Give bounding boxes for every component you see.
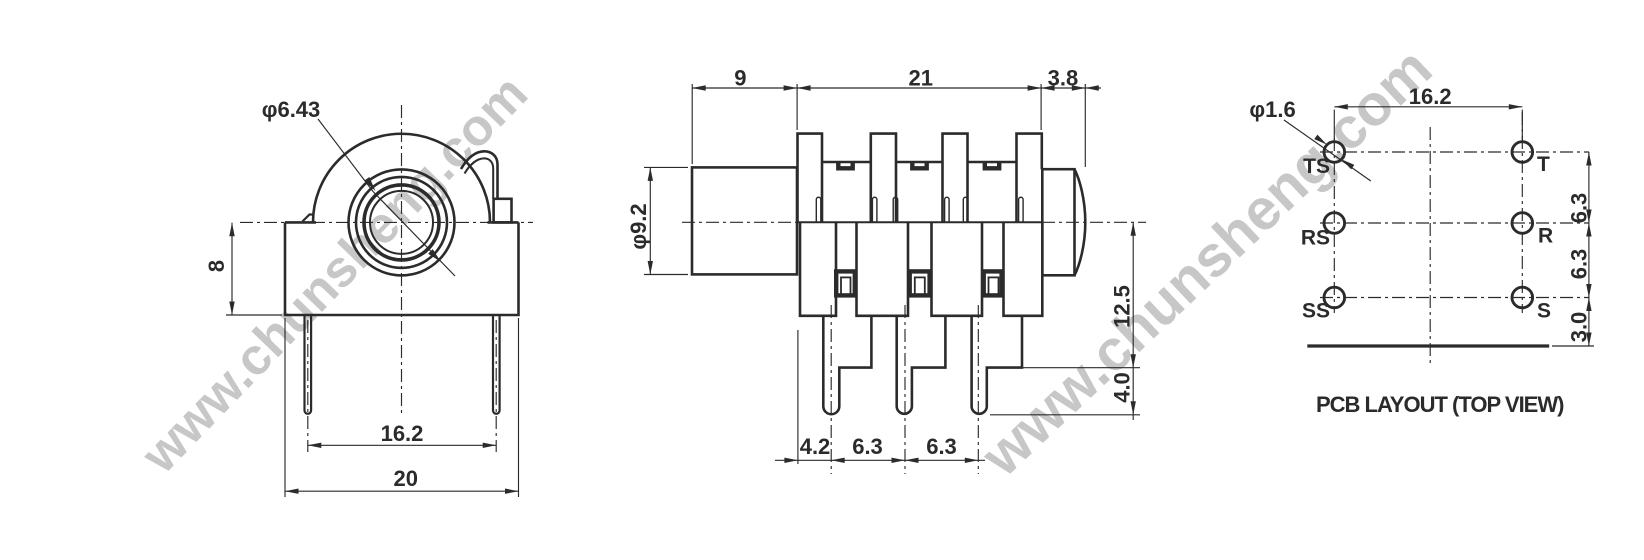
side view: notch in gap 2 [912,162,926,168]
pcb view: extension at board edge [1552,345,1594,347]
side view: lower block 4 [1004,222,1043,315]
front view: phi6.43 leader arrow upper [364,177,375,191]
side view: body mid line at centerline [798,221,1043,223]
svg-text:φ1.6: φ1.6 [1249,97,1295,122]
side view: right dimension line [1132,222,1134,420]
side view: notch in gap 3 [985,162,999,168]
side view: contact tab 4 column [1017,134,1042,223]
side view: pin centerlines [830,305,832,474]
svg-text:φ9.2: φ9.2 [626,203,651,249]
pcb view: vertical view centerline [1429,127,1431,363]
svg-text:20: 20 [393,466,417,491]
front view: hole circle phi6.43 (thick) [364,185,439,260]
side view: top dimension extension lines [691,84,693,164]
pcb view: column centerline left [1333,138,1335,313]
side view: 12.5 / 4.0 extension lines [1022,367,1140,369]
pcb view: 16.2 dimension line [1334,106,1522,108]
front view: phi6.43 leader arrow lower [428,249,441,262]
side view: horizontal centerline [682,221,1146,223]
pcb view: hole SS [1324,287,1345,308]
front view: switch tab square [494,199,512,223]
pcb view: hole S [1512,287,1533,308]
front view: dimension 20 line [285,490,519,492]
svg-text:4.0: 4.0 [1110,372,1135,403]
svg-text:3.8: 3.8 [1048,66,1079,91]
svg-text:16.2: 16.2 [1409,84,1452,109]
front view: spring hook outer curve [461,151,498,199]
side view: gap top edge 2 [896,161,943,164]
front view: dimension 20 extension lines [284,318,286,497]
svg-text:12.5: 12.5 [1110,285,1135,328]
front view: left pin centerline [307,320,309,452]
side view: bottom extension line [797,330,799,464]
front view: jack body rectangle 20x8 [285,222,519,315]
svg-text:SS: SS [1302,300,1330,323]
side view: pin 3 with mounting lug [972,316,1022,414]
side view: web 1 with square hole [836,271,855,295]
svg-text:S: S [1537,300,1551,323]
side view: end cap rectangle [1042,169,1074,275]
svg-text:R: R [1538,225,1553,248]
svg-text:PCB LAYOUT (TOP VIEW): PCB LAYOUT (TOP VIEW) [1316,392,1564,417]
side view: phi9.2 dimension line [649,167,651,274]
side view: phi9.2 extension lines [644,166,688,168]
side view: top dimension line [692,87,1101,89]
side view: web 2 with square hole [910,271,930,295]
side view: contact slots below tabs [816,197,821,222]
front view: right pin [493,315,500,414]
side view: contact tab 2 column [871,134,896,223]
pcb view: hole RS [1324,213,1345,234]
front view: second circle [356,177,447,268]
pcb view: right dimension line [1588,152,1590,346]
side view: gap top edge 3 [968,161,1017,164]
svg-text:3.0: 3.0 [1567,312,1592,343]
pcb view: hole TS [1324,142,1345,163]
svg-text:6.3: 6.3 [1567,193,1592,224]
front view: outer circle [349,169,455,275]
front view: right pin centerline [495,320,497,452]
front view: spring hook inner curve [465,158,494,198]
svg-text:φ6.43: φ6.43 [262,97,321,122]
side view: contact tab 1 column [798,134,823,223]
svg-text:16.2: 16.2 [381,421,424,446]
front view: dimension 8 extension line bottom [226,314,282,316]
pcb view: phi1.6 leader line [1284,120,1371,181]
front view: innermost circle [370,191,433,254]
side view: contact tab 3 column [943,134,968,223]
side view: pin 1 with mounting lug [823,316,871,414]
pcb view: column centerline right [1521,112,1523,313]
side view: notch in gap 1 [838,162,852,168]
svg-text:TS: TS [1303,155,1330,178]
pcb view: row centerlines [1320,151,1589,153]
svg-text:8: 8 [204,260,229,272]
side view: lower block 1 [800,222,836,315]
side view: lower block 2 [857,222,909,315]
side view: threaded bushing [692,167,797,274]
svg-text:21: 21 [908,66,932,91]
front view: vertical centerline [401,105,403,413]
front view: horizontal centerline [240,221,533,223]
svg-text:RS: RS [1301,227,1330,250]
front view: dome (barrel) arc [313,134,490,223]
svg-text:6.3: 6.3 [1567,249,1592,280]
svg-text:6.3: 6.3 [926,434,957,459]
svg-text:6.3: 6.3 [852,434,883,459]
side view: bottom dimension line [775,459,985,461]
side view: pin 2 with mounting lug [897,316,946,414]
front view: phi6.43 leader line [318,119,455,276]
front view: dimension 8 line [231,223,233,315]
front view: dimension 16.2 line [308,444,496,446]
pcb view: 16.2 extension lines [1333,110,1335,140]
svg-text:T: T [1537,153,1550,176]
svg-text:4.2: 4.2 [800,434,831,459]
front view: left pin [305,315,312,414]
side view: web 3 with square hole [984,271,1002,295]
side view: end cap bullet tip [1075,169,1086,275]
front view: body top edge right segment [488,221,519,224]
svg-text:9: 9 [734,66,746,91]
front view: body top edge left segment [285,221,316,224]
pcb view: hole T [1512,142,1533,163]
pcb view: hole R [1512,213,1533,234]
side view: lower block 3 [932,222,983,315]
side view: gap top edge 1 [822,161,871,164]
pcb view: board edge line [1307,344,1549,347]
front view: left wedge step [303,215,314,222]
